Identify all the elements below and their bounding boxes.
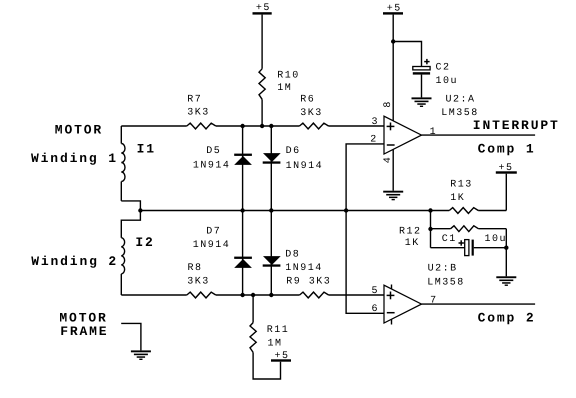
svg-text:10u: 10u bbox=[436, 76, 459, 87]
ground (motor frame) bbox=[131, 350, 151, 360]
svg-text:U2:B: U2:B bbox=[428, 263, 458, 274]
svg-text:1M: 1M bbox=[268, 339, 283, 350]
op-amp U2:A LM358 bbox=[384, 94, 479, 154]
node D8/bottom rail bbox=[269, 293, 273, 297]
pin 1 label bbox=[430, 127, 438, 138]
node inverting input branch bbox=[344, 208, 348, 212]
svg-text:1N914: 1N914 bbox=[286, 161, 324, 172]
op-amp U2:B LM358 bbox=[384, 263, 465, 324]
wire to C2 bbox=[393, 42, 421, 67]
wire mid rail down to R12/C1 bbox=[430, 211, 432, 248]
svg-text:Comp 2: Comp 2 bbox=[478, 311, 536, 326]
label Winding 1 bbox=[31, 151, 118, 166]
svg-text:R8: R8 bbox=[188, 263, 203, 274]
node D6/top rail bbox=[269, 124, 273, 128]
svg-text:3K3: 3K3 bbox=[300, 108, 323, 119]
svg-text:U2:A: U2:A bbox=[446, 94, 476, 105]
capacitor C2 bbox=[413, 59, 458, 98]
wire op-amp pin 4 to ground bbox=[392, 149, 394, 190]
node R12 left bbox=[428, 227, 432, 231]
svg-text:10u: 10u bbox=[485, 234, 508, 245]
label MOTOR FRAME bbox=[59, 310, 108, 338]
diode D8 1N914 bbox=[263, 250, 323, 275]
pin 4 label bbox=[383, 156, 394, 164]
svg-text:3K3: 3K3 bbox=[187, 107, 210, 118]
resistor R7 3K3 bbox=[187, 95, 216, 129]
wire R13 to +5 bbox=[478, 210, 506, 212]
svg-text:R7: R7 bbox=[187, 95, 202, 106]
power +5 (top right, op-amp supply) bbox=[383, 3, 403, 14]
svg-text:1M: 1M bbox=[277, 83, 292, 94]
pin 2 label bbox=[370, 134, 378, 145]
wire R6 to op-amp pin 3 bbox=[329, 125, 385, 127]
pin 7 label bbox=[430, 295, 438, 306]
wire winding1 bottom jog to centre tap bbox=[121, 201, 140, 238]
diode D7 1N914 bbox=[193, 226, 252, 268]
svg-text:D8: D8 bbox=[285, 250, 300, 261]
svg-text:D6: D6 bbox=[286, 146, 301, 157]
svg-text:8: 8 bbox=[383, 100, 394, 108]
svg-text:1K: 1K bbox=[405, 238, 420, 249]
label INTERRUPT bbox=[473, 118, 560, 133]
svg-text:3K3: 3K3 bbox=[187, 277, 210, 288]
pin 6 label bbox=[372, 304, 380, 315]
node D5/top rail bbox=[240, 124, 244, 128]
svg-text:I1: I1 bbox=[137, 141, 156, 156]
svg-text:R11: R11 bbox=[267, 325, 290, 336]
wire R11 to +5 bbox=[253, 352, 280, 379]
node R10/top rail bbox=[260, 124, 264, 128]
svg-text:4: 4 bbox=[383, 156, 394, 164]
node centre tap bbox=[138, 208, 142, 212]
svg-text:Comp 1: Comp 1 bbox=[478, 141, 536, 156]
svg-text:1N914: 1N914 bbox=[285, 263, 323, 274]
node C1 right bbox=[504, 246, 508, 250]
svg-text:FRAME: FRAME bbox=[60, 324, 108, 339]
svg-text:R9 3K3: R9 3K3 bbox=[286, 277, 331, 288]
node D8/mid rail bbox=[269, 208, 273, 212]
resistor R11 1M bbox=[250, 295, 289, 352]
svg-text:1N914: 1N914 bbox=[193, 240, 231, 251]
svg-text:I2: I2 bbox=[135, 235, 154, 250]
wire R12 right down to C1 bbox=[505, 229, 507, 248]
ground (below C2) bbox=[412, 97, 432, 107]
wire D5/D7 column bbox=[242, 126, 244, 295]
wire motor frame to ground bbox=[121, 323, 141, 350]
node R11/bottom rail bbox=[251, 293, 255, 297]
pin 8 label bbox=[383, 100, 394, 108]
wire winding1 top to R7 bbox=[121, 125, 187, 127]
svg-text:R6: R6 bbox=[300, 95, 315, 106]
label Comp 2 bbox=[478, 311, 536, 326]
resistor R6 3K3 bbox=[300, 95, 329, 129]
capacitor C1 10u bbox=[431, 234, 508, 256]
resistor R10 bbox=[259, 69, 300, 126]
wire Comp 2 output bbox=[422, 303, 536, 305]
wire winding2 bottom to R8 bbox=[121, 294, 187, 296]
resistor R9 3K3 bbox=[286, 277, 331, 298]
resistor R8 3K3 bbox=[187, 263, 216, 298]
wire INTERRUPT output bbox=[422, 134, 536, 136]
ground (op-amp A pin 4) bbox=[383, 191, 403, 201]
svg-text:R12: R12 bbox=[399, 226, 422, 237]
svg-text:3: 3 bbox=[372, 117, 380, 128]
svg-text:5: 5 bbox=[372, 286, 380, 297]
wire R7 to R6 (top rail) bbox=[216, 125, 300, 127]
ground (C1) bbox=[496, 276, 516, 286]
power +5 (top left, R10 pull-up) bbox=[253, 3, 272, 69]
power +5 (R13 pull-up) bbox=[496, 163, 517, 211]
diode D6 1N914 bbox=[263, 146, 323, 172]
svg-text:R13: R13 bbox=[450, 180, 473, 191]
pin 3 label bbox=[372, 117, 380, 128]
node +5/C2 junction bbox=[391, 39, 395, 43]
svg-text:Winding 1: Winding 1 bbox=[31, 151, 118, 166]
wire R8 to R9 (bottom rail) bbox=[216, 294, 300, 296]
label MOTOR bbox=[55, 122, 103, 137]
svg-text:LM358: LM358 bbox=[427, 278, 465, 289]
inductor I1 (motor winding 1) bbox=[121, 126, 156, 201]
wire C1 to ground bbox=[505, 248, 507, 277]
wire +5 to op-amp pin 8 bbox=[392, 15, 394, 121]
svg-text:MOTOR: MOTOR bbox=[55, 122, 103, 137]
diode D5 1N914 bbox=[193, 146, 252, 171]
node D7/bottom rail bbox=[240, 293, 244, 297]
inductor I2 (motor winding 2) bbox=[121, 235, 154, 295]
svg-text:6: 6 bbox=[372, 304, 380, 315]
label Winding 2 bbox=[31, 254, 118, 269]
pin 5 label bbox=[372, 286, 380, 297]
svg-text:1K: 1K bbox=[450, 193, 465, 204]
resistor R13 1K bbox=[449, 180, 478, 214]
svg-text:R10: R10 bbox=[277, 71, 300, 82]
wire pin 2 / pin 6 inverting inputs bbox=[346, 144, 384, 313]
resistor R12 1K bbox=[399, 226, 506, 249]
svg-text:INTERRUPT: INTERRUPT bbox=[473, 118, 560, 133]
svg-text:D5: D5 bbox=[206, 146, 221, 157]
svg-text:C2: C2 bbox=[436, 63, 451, 74]
node D7/mid rail bbox=[240, 208, 244, 212]
svg-text:Winding 2: Winding 2 bbox=[31, 254, 118, 269]
svg-text:1: 1 bbox=[430, 127, 438, 138]
node R13/R12/C1 branch bbox=[428, 208, 432, 212]
power +5 (R11 pull-up) bbox=[271, 351, 291, 362]
wire centre tap rail bbox=[140, 210, 449, 212]
svg-text:D7: D7 bbox=[206, 226, 221, 237]
svg-text:1N914: 1N914 bbox=[193, 160, 231, 171]
svg-text:C1: C1 bbox=[442, 234, 457, 245]
wire R9 to op-amp pin 5 bbox=[329, 294, 384, 296]
label Comp 1 bbox=[478, 141, 536, 156]
wire D6/D8 column bbox=[270, 126, 272, 295]
